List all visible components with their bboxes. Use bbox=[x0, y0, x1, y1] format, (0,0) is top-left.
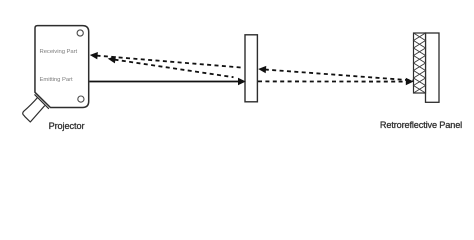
dashed beam: object to panel bbox=[258, 80, 407, 82]
arrowhead at object right edge bbox=[258, 65, 266, 73]
retroreflective sheet (hatched strip) bbox=[414, 33, 426, 93]
svg-text:Emitting Part: Emitting Part bbox=[40, 77, 73, 83]
dashed front-surface reflection: object to receiver (short) bbox=[115, 60, 234, 78]
svg-text:Projector: Projector bbox=[49, 121, 85, 131]
hatch zigzag A bbox=[414, 33, 426, 93]
hatch zigzag B bbox=[414, 33, 426, 93]
solid emitted beam: emitter to object bbox=[90, 81, 240, 83]
cable stub bbox=[23, 98, 45, 123]
screw hole top bbox=[77, 30, 83, 36]
arrowhead at receiver bbox=[89, 51, 97, 59]
dashed return beam: panel to object bbox=[265, 70, 414, 81]
transparent object bbox=[245, 35, 257, 102]
screw hole bottom bbox=[78, 96, 84, 102]
svg-text:Receiving Part: Receiving Part bbox=[40, 49, 78, 55]
sensor body (Projector) bbox=[35, 26, 89, 108]
arrowhead at panel bbox=[406, 78, 414, 85]
arrowhead (second) toward receiver bbox=[107, 55, 116, 63]
svg-text:Retroreflective Panel: Retroreflective Panel bbox=[380, 120, 462, 130]
cable boot collar line bbox=[35, 94, 49, 108]
dashed return beam: object to receiver bbox=[97, 56, 244, 68]
solid beam arrowhead at object bbox=[238, 78, 246, 85]
retroreflective panel back board bbox=[426, 33, 440, 102]
